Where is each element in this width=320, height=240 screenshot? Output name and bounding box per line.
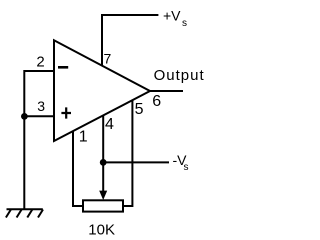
svg-text:Output: Output bbox=[154, 67, 205, 84]
svg-text:3: 3 bbox=[37, 98, 45, 114]
svg-text:6: 6 bbox=[152, 93, 161, 110]
svg-text:2: 2 bbox=[36, 54, 44, 71]
svg-text:5: 5 bbox=[135, 101, 144, 118]
svg-text:+V: +V bbox=[163, 8, 181, 24]
svg-text:s: s bbox=[182, 18, 187, 29]
svg-text:s: s bbox=[184, 162, 189, 173]
svg-text:10K: 10K bbox=[88, 222, 115, 239]
svg-text:4: 4 bbox=[105, 116, 114, 133]
svg-text:1: 1 bbox=[79, 129, 88, 146]
svg-text:7: 7 bbox=[104, 51, 112, 67]
